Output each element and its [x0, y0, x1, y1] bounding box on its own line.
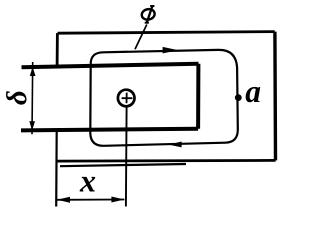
leader line from phi to flux loop [135, 25, 147, 50]
svg-text:x: x [79, 162, 96, 198]
flux arrow bottom (pointing left) [169, 142, 182, 148]
flux loop path [90, 50, 238, 146]
node a dot [235, 94, 242, 101]
svg-text:a: a [245, 74, 261, 109]
label phi (flux) [141, 6, 156, 23]
dimension arrow delta (double-headed vertical) [29, 62, 35, 134]
flux arrow top (pointing right) [163, 47, 179, 54]
magnetic yoke (outer rectangle) [56, 32, 275, 207]
dimension line x (double-headed horizontal) [57, 197, 124, 203]
plunger bar (armature) [21, 64, 199, 131]
coil cross-section symbol (circle with plus) [118, 90, 135, 107]
yoke bottom doubled stroke [60, 164, 186, 166]
svg-text:δ: δ [1, 90, 33, 105]
centerline from coil down (x-dimension extension) [125, 107, 128, 207]
